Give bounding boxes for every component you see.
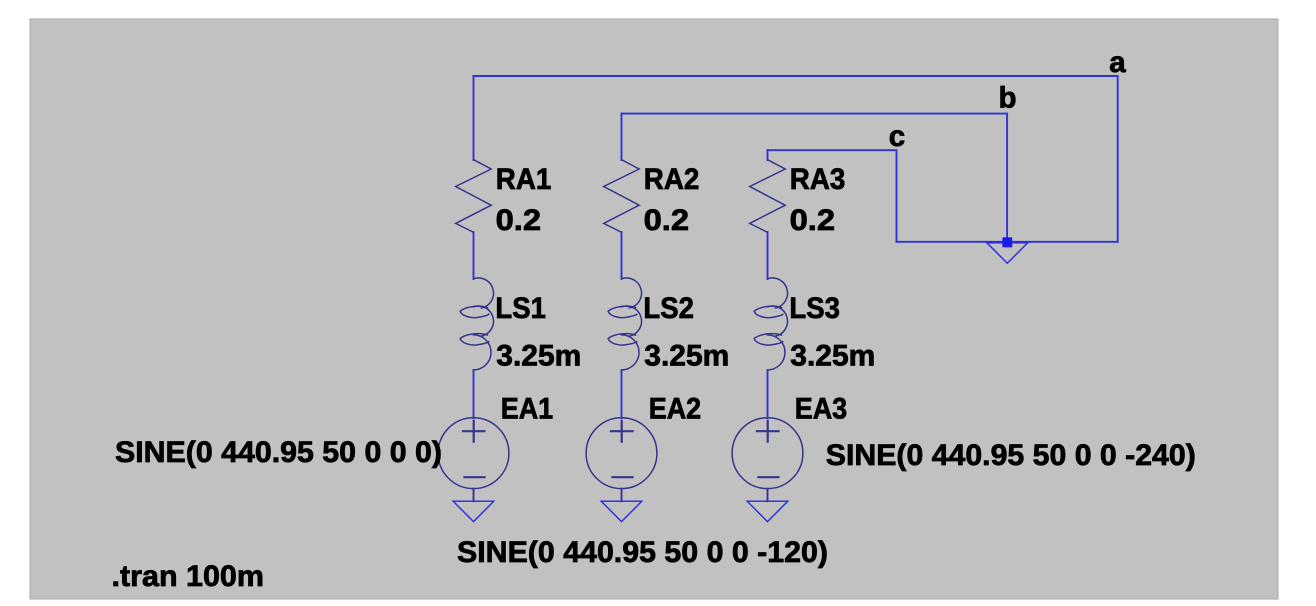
wire: RA2 bottom to LS2 top	[621, 232, 623, 279]
wire: branch 2 vertical from rail b to RA2	[621, 114, 623, 160]
svg-text:0.2: 0.2	[496, 204, 541, 237]
ground below EA3	[747, 501, 788, 521]
svg-text:EA2: EA2	[649, 393, 702, 426]
svg-text:0.2: 0.2	[790, 204, 836, 237]
ground at neutral node on bottom rail	[987, 243, 1028, 263]
wire: RA1 bottom to LS1 top	[473, 232, 475, 279]
wire: branch 3 vertical from rail c to RA3	[767, 150, 769, 160]
wire: LS3 bottom to EA3 top	[767, 370, 769, 418]
wire: RA3 bottom to LS3 top	[767, 232, 769, 279]
inductor LS3	[754, 278, 787, 370]
voltage source EA3	[732, 418, 803, 489]
svg-text:c: c	[889, 120, 905, 153]
wire: net c rail from RA3 top to vertical drop at x=896.5	[768, 150, 897, 242]
svg-text:RA1: RA1	[496, 163, 552, 196]
wire: branch 1 vertical from rail a to RA1	[473, 76, 475, 160]
svg-text:RA3: RA3	[790, 163, 846, 196]
wire: EA3 bottom stub to ground	[767, 489, 769, 502]
svg-text:b: b	[999, 82, 1017, 115]
wire: net b rail from RA2 top to vertical drop at x=1007	[622, 114, 1008, 242]
svg-text:SINE(0 440.95 50 0 0 -120): SINE(0 440.95 50 0 0 -120)	[457, 536, 828, 569]
ground below EA2	[601, 501, 642, 521]
resistor RA1	[456, 160, 492, 233]
svg-text:3.25m: 3.25m	[790, 340, 875, 373]
junction node square	[1002, 237, 1012, 247]
svg-text:.tran 100m: .tran 100m	[112, 560, 265, 593]
svg-text:a: a	[1109, 46, 1126, 79]
svg-text:SINE(0 440.95 50 0 0 0): SINE(0 440.95 50 0 0 0)	[115, 436, 442, 469]
svg-text:LS2: LS2	[643, 292, 694, 325]
inductor LS2	[608, 278, 641, 370]
resistor RA3	[750, 160, 786, 233]
svg-text:LS3: LS3	[789, 292, 840, 325]
svg-text:0.2: 0.2	[644, 204, 690, 237]
svg-text:RA2: RA2	[644, 163, 700, 196]
svg-text:3.25m: 3.25m	[496, 340, 581, 373]
voltage source EA1	[438, 418, 509, 489]
wire: EA2 bottom stub to ground	[621, 489, 623, 502]
resistor RA2	[604, 160, 640, 233]
svg-text:EA3: EA3	[795, 393, 848, 426]
inductor LS1	[460, 278, 493, 370]
wire: LS1 bottom to EA1 top	[473, 370, 475, 418]
wire: LS2 bottom to EA2 top	[621, 370, 623, 418]
svg-text:SINE(0 440.95 50 0 0 -240): SINE(0 440.95 50 0 0 -240)	[826, 439, 1196, 472]
svg-text:EA1: EA1	[501, 393, 554, 426]
ground below EA1	[453, 501, 494, 521]
svg-text:LS1: LS1	[495, 292, 546, 325]
svg-text:3.25m: 3.25m	[644, 340, 729, 373]
voltage source EA2	[586, 418, 657, 489]
wire: EA1 bottom stub to ground	[473, 489, 475, 502]
wire: net a top rail from RA1 top, right side down and bottom segment	[474, 76, 1118, 242]
